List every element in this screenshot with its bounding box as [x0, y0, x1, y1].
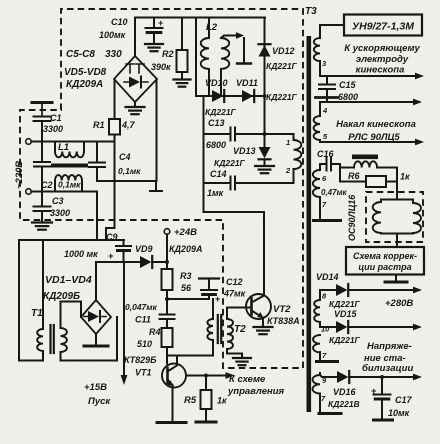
diode VD9 — [140, 256, 151, 268]
svg-text:VD15: VD15 — [334, 309, 358, 319]
diode VD16 — [337, 371, 348, 383]
wire right branch vertical (top rail to VD13) — [264, 18, 266, 148]
diode VD11 — [242, 90, 253, 102]
svg-text:1к: 1к — [217, 396, 227, 406]
svg-text:КД221Г: КД221Г — [329, 299, 361, 309]
svg-text:VD14: VD14 — [316, 272, 339, 282]
node junction R3/C11/C12 — [165, 297, 169, 301]
deflection yoke OS90LC16 windings — [396, 192, 398, 200]
wire T2 right winding to ground — [227, 353, 242, 355]
wire +15V start rail with down arrow — [123, 262, 125, 377]
capacitor C15 — [326, 76, 328, 84]
svg-text:R6: R6 — [348, 171, 360, 181]
svg-text:РЛС 90ЛЦ5: РЛС 90ЛЦ5 — [348, 132, 400, 143]
wire bridge left vertex to R1 — [114, 79, 116, 119]
wire T1 secondary bottom to bridge — [61, 360, 118, 362]
wire C13 rail (to T3 pin1) — [204, 133, 231, 135]
ground below R5 — [196, 421, 216, 424]
wire mains-top feed drop — [106, 142, 115, 241]
node junction VD16/C17 — [380, 375, 384, 379]
wire bridge VD1-VD4 plus output — [95, 262, 97, 300]
svg-text:56: 56 — [181, 283, 192, 293]
dashed box deflection yoke — [366, 192, 423, 242]
chassis below lower winding — [317, 360, 338, 363]
svg-text:1мк: 1мк — [207, 188, 224, 198]
svg-text:ОС90ЛЦ16: ОС90ЛЦ16 — [347, 194, 357, 241]
svg-text:КД209А: КД209А — [169, 244, 203, 254]
wire T1 secondary top to bridge — [61, 302, 82, 329]
capacitor C11 — [166, 299, 168, 314]
wire R6 network right node — [396, 168, 398, 193]
svg-text:электроду: электроду — [356, 54, 409, 65]
ground below VD13 — [255, 165, 274, 167]
inductor L2 right winding — [221, 38, 229, 69]
svg-text:КД221В: КД221В — [328, 399, 360, 409]
svg-text:управления: управления — [227, 386, 285, 397]
svg-text:Т3: Т3 — [305, 6, 317, 17]
transformer T3 primary winding (pins 1-2) — [293, 134, 295, 140]
ground below T2 right winding — [233, 357, 251, 359]
wire accelerating-electrode output — [320, 75, 416, 77]
wire VT1 collector row — [186, 375, 231, 377]
svg-text:10мк: 10мк — [388, 408, 410, 418]
diode VD13 — [259, 147, 271, 158]
bridge VD5-VD8 diamond — [134, 18, 136, 56]
chassis bar above C1 — [32, 101, 52, 104]
wire C14 rail (to T3 pin2) — [204, 182, 231, 184]
ground below bridge VD5-VD8 — [134, 102, 136, 106]
svg-text:VD9: VD9 — [135, 244, 153, 254]
capacitor C9 — [123, 240, 125, 246]
svg-text:VТ1: VТ1 — [135, 368, 152, 378]
svg-text:С5-С8: С5-С8 — [66, 49, 95, 60]
resistor R6 — [340, 181, 366, 183]
svg-text:VD10: VD10 — [205, 78, 228, 88]
resistor R2 — [181, 18, 183, 51]
wire bridge right vertex drop — [156, 79, 158, 181]
svg-text:С16: С16 — [317, 149, 335, 159]
capacitor C1 — [41, 104, 43, 117]
wire C12 bottom — [208, 295, 210, 299]
svg-text:КД221Г: КД221Г — [214, 158, 246, 168]
svg-text:С4: С4 — [119, 152, 131, 162]
svg-text:47мк: 47мк — [223, 289, 246, 299]
svg-text:100мк: 100мк — [99, 30, 126, 40]
wire left node of C13/C14 — [203, 96, 205, 212]
wire diode row — [196, 95, 265, 97]
svg-text:R2: R2 — [162, 49, 174, 59]
wire +24V down — [166, 234, 168, 262]
svg-text:3300: 3300 — [43, 124, 63, 134]
svg-text:С14: С14 — [210, 169, 227, 179]
inductor L2 left winding — [208, 18, 210, 39]
wire VT2 base — [227, 307, 252, 309]
transformer T3 core — [307, 36, 312, 412]
capacitor C14 — [230, 177, 232, 190]
wire VD14 row +280V — [320, 289, 336, 291]
T3 winding pins 6-7 — [319, 164, 321, 170]
svg-text:Напряже-: Напряже- — [367, 341, 412, 352]
wire filament line 1 — [320, 101, 414, 103]
wire mains bottom — [31, 191, 97, 193]
svg-text:0,047мк: 0,047мк — [125, 302, 158, 312]
svg-text:6800: 6800 — [206, 140, 226, 150]
box raster correction circuit — [346, 247, 424, 275]
svg-text:КД209Б: КД209Б — [43, 291, 80, 302]
ground below C3 — [32, 221, 52, 223]
capacitor C12 top bar — [199, 277, 219, 279]
svg-text:1000 мк: 1000 мк — [64, 249, 98, 259]
node X2 mains terminal bottom — [26, 189, 32, 195]
node junction collector/R5 — [204, 374, 208, 378]
svg-text:КД221Г: КД221Г — [266, 92, 298, 102]
svg-text:+280В: +280В — [385, 298, 413, 309]
wire mains to T1 rail — [19, 239, 124, 241]
svg-text:кинескопа: кинескопа — [356, 65, 405, 76]
svg-text:билизации: билизации — [362, 363, 413, 374]
svg-text:VD16: VD16 — [333, 387, 357, 397]
diode VD15 — [336, 321, 347, 333]
chassis below bridge VD1-VD4 — [95, 334, 97, 345]
svg-text:1к: 1к — [400, 172, 410, 182]
svg-text:10: 10 — [321, 325, 330, 334]
wire top rail to diode row (left leg) — [195, 18, 197, 97]
svg-text:6800: 6800 — [338, 92, 358, 102]
svg-text:VD5-VD8: VD5-VD8 — [64, 67, 107, 78]
svg-text:0,47мк: 0,47мк — [321, 188, 347, 197]
svg-text:КД221Г: КД221Г — [329, 335, 361, 345]
wire VD9 row — [96, 261, 140, 263]
node junction diode-row / right branch — [263, 94, 267, 98]
wire R6 network left node — [339, 164, 341, 182]
svg-text:+: + — [158, 18, 163, 28]
svg-text:С11: С11 — [135, 315, 151, 325]
diode VD10 — [212, 90, 223, 102]
svg-text:VD13: VD13 — [233, 146, 256, 156]
wire R3 bottom to C12 — [167, 298, 209, 300]
transformer T2 left winding — [212, 299, 214, 319]
svg-text:С1: С1 — [50, 113, 62, 123]
L2 tap arrow to terminal — [221, 36, 240, 39]
transformer T2 core — [217, 315, 219, 343]
transformer T1 secondary winding — [61, 328, 67, 352]
svg-text:1: 1 — [286, 138, 290, 147]
wire main DC top rail — [135, 17, 265, 19]
dashed enclosure of converter module — [20, 9, 303, 368]
svg-text:С3: С3 — [52, 196, 64, 206]
wire filament line 2 — [320, 141, 416, 143]
svg-text:УН9/27-1,3М: УН9/27-1,3М — [352, 21, 414, 33]
node X1 mains terminal top — [26, 139, 32, 145]
chassis below C17 — [374, 419, 393, 422]
ground below VT2 emitter — [254, 326, 273, 328]
svg-text:L2: L2 — [206, 22, 218, 33]
svg-text:Накал кинескопа: Накал кинескопа — [336, 119, 416, 130]
svg-text:~220В: ~220В — [14, 161, 25, 189]
svg-text:R5: R5 — [184, 395, 197, 406]
resistor R4 — [162, 328, 173, 347]
svg-text:+: + — [371, 386, 377, 397]
ground below R2 — [174, 78, 191, 80]
chassis below pin 7 — [314, 219, 341, 222]
svg-text:Т1: Т1 — [31, 308, 43, 319]
svg-text:С12: С12 — [226, 277, 243, 287]
svg-text:С15: С15 — [339, 80, 357, 90]
transistor VT1 — [162, 364, 186, 388]
svg-text:КТ838А: КТ838А — [267, 316, 300, 326]
svg-text:Т2: Т2 — [234, 324, 246, 335]
T3 winding pins 8-10 — [319, 290, 321, 300]
svg-text:VD12: VD12 — [272, 46, 295, 56]
svg-text:С17: С17 — [395, 395, 413, 405]
svg-text:0,1мк: 0,1мк — [118, 166, 141, 176]
wire down to VT2 collector — [204, 211, 265, 213]
svg-text:2: 2 — [285, 166, 291, 175]
svg-text:330: 330 — [105, 49, 122, 60]
svg-text:Пуск: Пуск — [88, 396, 111, 407]
svg-text:Схема коррек-: Схема коррек- — [353, 251, 417, 261]
svg-text:+: + — [108, 251, 114, 262]
node junction +24V/VD9 — [165, 260, 169, 264]
transformer T2 right winding — [226, 308, 228, 320]
chassis T3 bottom — [319, 412, 341, 415]
node +24V terminal — [164, 229, 170, 235]
svg-text:R4: R4 — [149, 327, 161, 337]
svg-text:3300: 3300 — [50, 208, 70, 218]
svg-text:4,7: 4,7 — [121, 120, 136, 130]
diode VD14 — [336, 284, 347, 296]
svg-text:VТ2: VТ2 — [273, 304, 291, 315]
svg-text:+24В: +24В — [174, 227, 197, 238]
chassis below raster correction box — [395, 275, 397, 282]
T3 winding pins 3-x — [314, 38, 320, 61]
capacitor C4 — [96, 142, 98, 163]
resistor R3 — [166, 262, 168, 269]
svg-text:ции растра: ции растра — [358, 262, 411, 272]
svg-text:С2: С2 — [41, 180, 53, 190]
wire VT1 feedback rail — [167, 355, 213, 357]
inductor L3 with core (damper choke) — [340, 167, 354, 169]
wire VD15 row — [320, 326, 336, 328]
T3 winding (ground leg) — [313, 335, 320, 352]
wire mains top — [31, 141, 114, 143]
svg-text:4: 4 — [322, 106, 328, 115]
svg-text:L1: L1 — [58, 142, 69, 153]
svg-text:К схеме: К схеме — [229, 374, 266, 385]
ground below VT1 emitter — [157, 421, 186, 424]
wire VD16 row stabilization — [320, 375, 322, 377]
transformer T1 primary winding — [37, 329, 43, 351]
svg-text:VD1–VD4: VD1–VD4 — [45, 274, 92, 286]
box UN9/27-1,3M — [344, 15, 422, 36]
svg-text:С10: С10 — [111, 17, 128, 27]
svg-text:390к: 390к — [151, 62, 171, 72]
inductor L1 two-winding filter choke — [54, 142, 56, 152]
transistor VT2 — [246, 294, 271, 319]
wire C4 bottom to bridge-right drop — [97, 180, 156, 182]
svg-text:0,1мк: 0,1мк — [58, 180, 81, 190]
wire mains bottom drop — [96, 192, 98, 241]
capacitor C10 — [153, 18, 155, 28]
capacitor C16 — [320, 163, 327, 165]
bridge VD1-VD4 diamond — [81, 300, 111, 334]
capacitor C12 — [201, 289, 217, 291]
wire T1 primary top leg — [42, 240, 44, 329]
capacitor C2 — [41, 142, 43, 162]
capacitor C17 — [381, 377, 383, 394]
transformer T1 core — [49, 325, 51, 353]
resistor R5 — [205, 376, 207, 391]
svg-text:К ускоряющему: К ускоряющему — [344, 43, 420, 54]
wire T3 pin3 to UN9 box — [319, 25, 321, 38]
svg-text:КТ829Б: КТ829Б — [124, 355, 157, 365]
resistor R1 — [109, 119, 120, 135]
node junction C13 rail / VD13 — [263, 132, 267, 136]
svg-text:+15В: +15В — [84, 382, 107, 393]
svg-text:+: + — [215, 294, 220, 304]
diode VD12 — [259, 45, 271, 56]
svg-text:R3: R3 — [180, 271, 192, 281]
wire T1 left leg — [19, 240, 43, 361]
ground below C10 — [145, 43, 163, 45]
svg-text:VD11: VD11 — [236, 78, 258, 88]
svg-text:КД221Г: КД221Г — [266, 61, 298, 71]
svg-text:510: 510 — [137, 339, 152, 349]
T3 winding pins 9-11 — [319, 373, 321, 375]
svg-text:КД209А: КД209А — [66, 79, 103, 90]
svg-text:R1: R1 — [93, 120, 105, 130]
arrow to control circuit — [226, 372, 236, 379]
capacitor C3 — [41, 192, 43, 207]
svg-text:С13: С13 — [208, 118, 225, 128]
svg-text:КД221Г: КД221Г — [205, 107, 237, 117]
T3 winding pins 4-5 (filament) — [319, 102, 321, 116]
capacitor C13 — [230, 128, 232, 141]
